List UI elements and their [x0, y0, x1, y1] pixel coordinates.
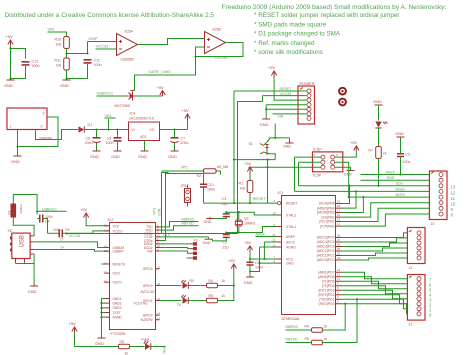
svg-text:XTAL2: XTAL2: [286, 214, 296, 218]
IC1 ATmega328: [273, 191, 342, 321]
LED D4 RX: [181, 279, 195, 289]
svg-text:JP5: JP5: [181, 184, 187, 188]
wire PB3 to MOSI: [342, 197, 364, 212]
header J3 digital 8-13: [429, 171, 447, 226]
svg-text:Q2: Q2: [244, 217, 249, 221]
svg-text:* some silk modifications: * some silk modifications: [254, 49, 323, 56]
+5V arrow to POWER pin3: [268, 65, 307, 100]
resistor R9: [305, 325, 328, 333]
node: [9, 47, 11, 49]
svg-text:RESET: RESET: [280, 87, 293, 91]
ground: [4, 79, 15, 89]
svg-text:NDT2955: NDT2955: [115, 104, 130, 108]
svg-text:18: 18: [337, 204, 341, 208]
wire: [378, 105, 380, 121]
ground: [95, 337, 106, 347]
wire TXD to M8RXD: [160, 217, 199, 227]
svg-text:AGND: AGND: [113, 315, 123, 319]
svg-text:C7: C7: [181, 137, 186, 141]
svg-text:19: 19: [104, 261, 108, 265]
wire IC4 ADJ to ground: [144, 141, 146, 150]
svg-text:1: 1: [10, 125, 12, 129]
svg-text:(ADC0)PC0: (ADC0)PC0: [317, 258, 335, 262]
capacitor C1: [247, 259, 264, 276]
wire PC2 to J2 pin4: [342, 248, 408, 251]
svg-text:(MOSI)PB3: (MOSI)PB3: [317, 211, 334, 215]
svg-text:+5V: +5V: [244, 240, 252, 245]
op-amp IC5B: [205, 28, 229, 60]
wire op-amp A out to B in: [138, 39, 205, 45]
wire feedback loop IC5B: [196, 43, 244, 57]
wire PC5 to J2 pin1: [342, 233, 408, 238]
wire VCC33 junction: [65, 232, 67, 234]
svg-text:19: 19: [337, 200, 341, 204]
+5V arrow: [228, 258, 237, 270]
resistor R4: [207, 279, 226, 288]
svg-text:1k: 1k: [222, 279, 226, 283]
resistor R6: [305, 337, 328, 345]
svg-text:(AIN0)PD6: (AIN0)PD6: [318, 275, 335, 279]
wire RESET junction row: [234, 159, 275, 161]
fiducial mark H1: [339, 88, 346, 95]
wire USB D+: [34, 245, 109, 251]
ground: [168, 150, 179, 160]
svg-text:GND: GND: [204, 220, 212, 224]
svg-text:GND: GND: [168, 154, 177, 159]
LED D6 PWR: [142, 338, 151, 350]
svg-text:AREF: AREF: [256, 233, 266, 237]
svg-text:GND: GND: [138, 154, 147, 159]
svg-text:RESET#: RESET#: [113, 262, 126, 266]
svg-text:100n: 100n: [403, 160, 411, 164]
svg-text:15: 15: [337, 218, 341, 222]
svg-text:FT232RL: FT232RL: [111, 332, 127, 336]
ground: [260, 118, 271, 128]
wire VIN to POWER pin6: [273, 114, 307, 119]
svg-text:VCC5-NC: VCC5-NC: [134, 301, 149, 305]
LED D5 TX: [177, 295, 189, 307]
svg-text:AREF: AREF: [286, 235, 295, 239]
wire: [189, 285, 207, 287]
svg-text:3: 3: [43, 112, 45, 116]
svg-text:11: 11: [451, 196, 456, 201]
svg-text:GND: GND: [60, 83, 69, 88]
wire PD1 to J1 pin1: [342, 299, 408, 309]
svg-text:IC5P: IC5P: [313, 174, 322, 178]
svg-text:GND: GND: [90, 154, 99, 159]
svg-text:(SS)PB2: (SS)PB2: [321, 215, 334, 219]
svg-text:R8: R8: [120, 340, 124, 344]
svg-text:16MHz: 16MHz: [244, 221, 256, 225]
svg-text:R2: R2: [197, 174, 201, 178]
wire divider to C11: [67, 42, 88, 54]
svg-text:1: 1: [274, 199, 276, 203]
svg-text:* Ref. marks changed: * Ref. marks changed: [254, 40, 315, 47]
svg-text:100n: 100n: [32, 64, 40, 68]
svg-text:(MISO)PB4: (MISO)PB4: [317, 206, 334, 210]
svg-text:GND: GND: [11, 159, 20, 164]
wire VCC33 to POWER pin2: [263, 92, 307, 96]
svg-text:ADJ: ADJ: [140, 135, 147, 139]
svg-text:+5V: +5V: [157, 85, 165, 90]
svg-text:VO: VO: [150, 128, 155, 132]
svg-text:R5: R5: [209, 294, 213, 298]
svg-text:(INT1)PD3: (INT1)PD3: [318, 288, 334, 292]
svg-text:(AIN1)PD7: (AIN1)PD7: [318, 270, 335, 274]
svg-text:GND: GND: [244, 280, 253, 285]
svg-text:24: 24: [337, 252, 341, 256]
svg-text:C12: C12: [32, 60, 39, 64]
wire PD6 to J1 pin6: [342, 277, 408, 284]
capacitor C8: [106, 130, 122, 150]
+5V arrow above R1: [244, 161, 253, 173]
svg-text:GND: GND: [28, 289, 37, 294]
node: [36, 210, 38, 212]
svg-text:1k: 1k: [125, 351, 129, 355]
wire R9 to PD0: [323, 304, 346, 330]
svg-text:10k: 10k: [56, 43, 62, 47]
wire ICSP VCC to +5V: [335, 152, 357, 158]
svg-text:VIN: VIN: [277, 115, 283, 119]
svg-text:0: 0: [429, 313, 432, 318]
title annotation text: [5, 4, 447, 56]
svg-text:Distributed under a Creative C: Distributed under a Creative Commons lic…: [5, 12, 215, 19]
svg-text:28: 28: [337, 234, 341, 238]
svg-text:(ADC1)PC1: (ADC1)PC1: [317, 254, 335, 258]
wire R6 to PD1: [323, 299, 358, 342]
wire RXD to M8TXD: [160, 222, 199, 230]
svg-text:USB: USB: [20, 235, 26, 247]
node: [258, 262, 260, 264]
wire RESET to POWER pin1: [234, 87, 307, 203]
wire XTAL2: [226, 212, 276, 215]
ground: [138, 150, 149, 160]
svg-text:2: 2: [336, 153, 338, 157]
wire ICSP SCK pin3 left down: [299, 162, 321, 186]
resistor R8: [119, 340, 130, 355]
svg-text:R6: R6: [305, 337, 309, 341]
svg-text:(ICP)PB0: (ICP)PB0: [320, 224, 334, 228]
pushbutton S1: [249, 124, 276, 204]
svg-text:14: 14: [337, 222, 341, 226]
svg-text:RESET: RESET: [253, 196, 267, 201]
USB connector X2: [8, 229, 35, 263]
svg-text:VIN: VIN: [48, 27, 55, 32]
svg-text:D+: D+: [61, 245, 65, 249]
svg-text:R11: R11: [55, 59, 61, 63]
wire CBUS0 to RX led: [160, 285, 182, 287]
svg-text:+5V: +5V: [228, 258, 236, 263]
svg-text:* D1 package changed to SMA: * D1 package changed to SMA: [254, 31, 341, 38]
svg-text:XTAL1: XTAL1: [286, 225, 296, 229]
svg-text:(INT0)PD2: (INT0)PD2: [318, 293, 334, 297]
svg-text:(ADC2)PC2: (ADC2)PC2: [317, 249, 335, 253]
wire: [67, 64, 88, 79]
svg-text:DTR: DTR: [158, 208, 162, 216]
+5V supply symbol (comparator bypass): [6, 34, 14, 46]
node: [249, 202, 251, 204]
svg-text:R10: R10: [55, 38, 62, 42]
wire ICSP GND pin6: [335, 167, 351, 169]
svg-text:100n: 100n: [94, 63, 102, 67]
capacitor C4: [37, 215, 53, 234]
wire: [75, 333, 119, 347]
+5V arrow: [350, 140, 359, 152]
net GND line to J3: [361, 176, 430, 180]
svg-text:USBDP: USBDP: [113, 250, 124, 254]
svg-text:TX: TX: [177, 303, 182, 307]
ground: [204, 217, 215, 224]
wire GATE_CMD net: [135, 57, 196, 91]
svg-text:Freeduino 2009 (Arduino 2009 b: Freeduino 2009 (Arduino 2009 based) Smal…: [222, 4, 447, 11]
wire X1 center pin to D1: [36, 130, 79, 140]
svg-text:(TXD)PD1: (TXD)PD1: [319, 297, 335, 301]
node AREF label stub at IC1: [256, 233, 277, 237]
wire CTS to ground: [160, 233, 209, 238]
node: [263, 258, 265, 260]
wire: [130, 346, 145, 348]
svg-text:AVCC: AVCC: [286, 241, 296, 245]
svg-text:(OC1)PB1: (OC1)PB1: [319, 220, 335, 224]
svg-text:10k: 10k: [240, 187, 246, 191]
svg-text:POWER: POWER: [300, 81, 315, 86]
svg-text:R7: R7: [369, 149, 373, 153]
ground: [344, 169, 355, 177]
svg-text:RT1: RT1: [182, 166, 188, 170]
wire: [10, 46, 12, 79]
svg-text:OSCO: OSCO: [113, 281, 123, 285]
svg-text:12: 12: [337, 273, 341, 277]
svg-text:SLEEP#: SLEEP#: [140, 318, 152, 322]
svg-text:GND: GND: [4, 83, 13, 88]
svg-text:(T0)PD4: (T0)PD4: [322, 284, 335, 288]
svg-text:RESET: RESET: [286, 202, 297, 206]
svg-text:4: 4: [337, 291, 339, 295]
node: [348, 196, 350, 198]
wire PC4 to J2 pin2: [342, 238, 408, 242]
resistor R1: [239, 173, 253, 204]
svg-text:X3: X3: [194, 238, 198, 242]
ground flag above L LED: [373, 99, 383, 105]
svg-text:GND: GND: [387, 176, 395, 180]
svg-text:AREF: AREF: [386, 170, 396, 174]
svg-text:100n: 100n: [207, 188, 215, 192]
svg-text:* SMD pads made square: * SMD pads made square: [254, 21, 327, 28]
svg-text:100u: 100u: [85, 141, 93, 145]
svg-text:AGND: AGND: [286, 246, 296, 250]
svg-text:MISO: MISO: [396, 187, 405, 191]
wire R7 down to SCK net: [378, 159, 380, 186]
svg-text:C3: C3: [222, 197, 227, 201]
wire ICSP MOSI pin4 down to MOSI net: [335, 162, 349, 197]
svg-text:2: 2: [337, 300, 339, 304]
svg-text:9: 9: [451, 207, 454, 212]
svg-text:* RESET solder jumper replaced: * RESET solder jumper replaced with ordi…: [254, 12, 399, 19]
wire GND to POWER pins 4,5: [266, 105, 307, 118]
node VIN label: [48, 27, 67, 37]
resistor R7: [369, 147, 387, 159]
svg-text:IC2: IC2: [108, 218, 114, 222]
svg-text:GND: GND: [395, 131, 404, 136]
svg-text:1M_NM: 1M_NM: [217, 165, 229, 169]
net MISO line to J3: [295, 187, 430, 191]
capacitor C6 (electrolytic): [85, 130, 101, 150]
node CMP label / wire to op-amp: [88, 36, 117, 42]
svg-text:M8TXD: M8TXD: [182, 222, 195, 226]
node: [95, 128, 97, 130]
svg-text:GPIO2: GPIO2: [143, 267, 153, 271]
wire PD0 to J1 pin0: [342, 304, 408, 314]
svg-text:6: 6: [337, 282, 339, 286]
svg-text:ICSP: ICSP: [313, 148, 322, 152]
crystal Q2: [235, 212, 255, 232]
svg-text:USBVCC: USBVCC: [42, 207, 57, 211]
wire PB0 to J3 pin8: [342, 214, 430, 226]
wire: [218, 270, 234, 286]
node: [238, 211, 240, 213]
wire X1 sleeve to ground: [18, 117, 59, 155]
svg-text:SCK: SCK: [396, 182, 404, 186]
svg-text:25: 25: [337, 247, 341, 251]
svg-text:S1: S1: [249, 142, 253, 146]
svg-text:F1: F1: [8, 211, 12, 215]
wire: [66, 49, 68, 58]
svg-text:5: 5: [337, 286, 339, 290]
node: [173, 128, 175, 130]
regulator IC4: [129, 112, 160, 141]
resistor R10: [55, 37, 70, 49]
svg-text:+5V: +5V: [244, 161, 252, 166]
svg-text:J2: J2: [409, 266, 413, 270]
svg-text:+5V: +5V: [182, 108, 190, 113]
svg-text:GATE_CMD: GATE_CMD: [149, 69, 171, 74]
node GND label: [163, 345, 167, 353]
svg-text:17: 17: [337, 209, 341, 213]
ground: [111, 150, 122, 160]
svg-text:C13: C13: [207, 183, 214, 187]
svg-text:(ADC4)PC4: (ADC4)PC4: [317, 240, 335, 244]
svg-text:VCC33: VCC33: [69, 234, 81, 238]
svg-text:IC4: IC4: [130, 112, 136, 116]
svg-text:28: 28: [104, 280, 108, 284]
svg-text:27: 27: [337, 238, 341, 242]
wire: [66, 70, 68, 79]
node: [274, 137, 276, 139]
node: [233, 284, 235, 286]
wire USB shield ground: [16, 254, 35, 285]
capacitor C2: [213, 233, 230, 250]
svg-text:+5V: +5V: [268, 65, 276, 70]
svg-text:C5: C5: [406, 153, 411, 157]
jumper JP5 (reset jumper): [181, 184, 191, 207]
svg-text:VCC: VCC: [113, 224, 120, 228]
wire: [378, 128, 380, 147]
wire VIN rail: [85, 129, 129, 131]
wire USB D-: [34, 238, 109, 248]
svg-text:GND1: GND1: [113, 297, 122, 301]
svg-text:1: 1: [314, 153, 316, 157]
ground flag above C5: [395, 131, 405, 137]
svg-text:GND: GND: [344, 173, 352, 177]
svg-text:VIN: VIN: [105, 113, 112, 118]
svg-text:M8RXD: M8RXD: [286, 325, 299, 329]
svg-text:1k: 1k: [324, 337, 328, 341]
svg-text:RI#: RI#: [148, 249, 153, 253]
svg-text:ATMEGA8: ATMEGA8: [282, 317, 300, 321]
svg-text:+5V: +5V: [350, 140, 358, 145]
svg-text:AVCC-NC: AVCC-NC: [141, 290, 156, 294]
node USBVCC label: [37, 207, 66, 211]
svg-text:C8: C8: [107, 137, 112, 141]
op-amp IC5A: [117, 30, 138, 62]
svg-text:1k: 1k: [222, 294, 226, 298]
svg-text:GND: GND: [95, 341, 104, 346]
svg-text:C11: C11: [94, 59, 100, 63]
svg-text:RX: RX: [190, 279, 195, 283]
ground: [28, 285, 39, 295]
svg-text:M8TXD: M8TXD: [286, 337, 299, 341]
net MOSI line to J3: [349, 193, 430, 197]
wire PD4 to J1 pin4: [342, 286, 408, 294]
svg-text:RTS: RTS: [153, 207, 157, 214]
svg-text:+5V: +5V: [80, 207, 88, 212]
wire: [11, 66, 26, 79]
capacitor C9: [48, 228, 110, 238]
svg-text:GND: GND: [111, 154, 120, 159]
ground: [203, 239, 213, 245]
node M8RXD label: [286, 325, 312, 330]
svg-text:23: 23: [337, 256, 341, 260]
NC pads DSR DCD RI: [160, 238, 198, 259]
wire RTS vertical: [153, 173, 169, 234]
+5V arrow to IC2 VCC: [80, 207, 110, 226]
svg-text:VCCIO: VCCIO: [113, 229, 124, 233]
fuse F1: [8, 204, 24, 218]
svg-text:D1: D1: [88, 123, 93, 127]
diode D1: [79, 123, 93, 133]
capacitor C11: [84, 59, 102, 68]
wire F1 bottom to X2 VCC: [13, 218, 34, 236]
J3 pin net numbers: [451, 185, 456, 218]
wire XTAL1: [226, 227, 276, 233]
capacitor C3: [214, 197, 230, 219]
net AREF line to J3: [361, 170, 430, 174]
svg-text:100n: 100n: [106, 141, 114, 145]
IC2 FT232RL: [104, 218, 161, 336]
fiducial mark H2: [339, 99, 346, 106]
wire PC3 to J2 pin3: [342, 243, 408, 247]
node VCC33 label / wire to op-amp: [96, 44, 117, 50]
wire DTR from FT232 up to C13: [158, 174, 204, 241]
node: [194, 55, 196, 57]
svg-text:GND3: GND3: [113, 306, 122, 310]
ground: [90, 150, 101, 160]
wire IC2 ground pins to GND: [102, 264, 105, 337]
svg-text:R9: R9: [305, 325, 309, 329]
wire: [189, 300, 207, 302]
svg-text:(ADC3)PC3: (ADC3)PC3: [317, 245, 335, 249]
wire IC4 out: [160, 121, 188, 130]
node: [233, 159, 235, 161]
+5V arrow: [182, 108, 191, 121]
svg-text:22p: 22p: [222, 202, 228, 206]
wire F1 top to USBVCC rail: [13, 195, 37, 215]
svg-text:C6: C6: [86, 137, 91, 141]
capacitor C5: [397, 137, 411, 176]
ground: [11, 155, 22, 165]
wire PC0 to J2 pin6: [342, 258, 408, 260]
svg-text:2: 2: [41, 125, 43, 129]
